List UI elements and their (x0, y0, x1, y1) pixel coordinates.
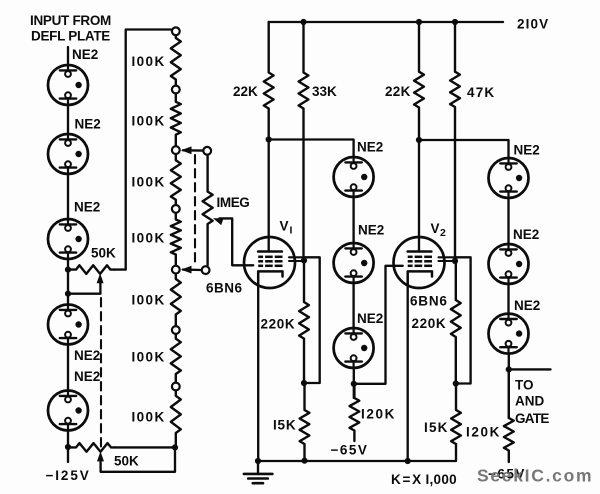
junction 220K/15K (V1) (301, 380, 307, 386)
wire ladder tap to 1MEG bottom (183, 268, 201, 271)
ladder tap node #7 (172, 383, 180, 391)
resistor 120K (middle, to -65V) (350, 384, 360, 441)
wire lamp5 to -125V stub (67, 431, 69, 462)
resistor 220K (V2) (451, 261, 461, 384)
V2 grid3 double lead (439, 256, 456, 258)
resistor 100K #1 (ladder) (171, 36, 181, 85)
junction ladder bottom / 50K right (172, 444, 178, 450)
wire 50K upper right end up to ladder top (115, 30, 172, 270)
wire mid lamp3 to 120K (353, 368, 355, 398)
neon lamp NE2 #2 (left chain) (48, 134, 88, 174)
svg-text:NE2: NE2 (74, 200, 100, 215)
wire 50K upper wiper return (68, 282, 100, 294)
wire output TO AND GATE (509, 368, 551, 370)
resistor 100K #7 (ladder) (171, 391, 181, 447)
wire lamp1-lamp2 (67, 105, 69, 135)
svg-text:SeekIC.com: SeekIC.com (477, 466, 593, 486)
resistor 100K #4 (ladder) (171, 214, 181, 266)
resistor 100K #3 (ladder) (171, 155, 181, 205)
wire right lamp3 to 120K (508, 354, 510, 418)
wire ground rail (258, 444, 456, 461)
V1 grid3 double lead (289, 256, 304, 258)
resistor 47K (450, 22, 460, 261)
svg-text:GATE: GATE (515, 411, 549, 426)
ladder tap node #2 (172, 86, 180, 94)
dashed gang line (1MEG) (194, 155, 196, 266)
wire to middle lamp chain (269, 140, 354, 158)
svg-text:6BN6: 6BN6 (206, 281, 243, 296)
svg-text:220K: 220K (261, 317, 296, 332)
junction 22K1 / V1 plate / lamp wire (266, 136, 272, 142)
neon lamp NE2 #3 (left chain) (48, 219, 88, 259)
junction ground rail (255, 458, 261, 464)
resistor 15K (V2) (451, 384, 461, 445)
wire mid lamp1-lamp2 (352, 197, 354, 244)
wire 50K lower right end to ladder bottom (115, 446, 175, 448)
svg-text:I20K: I20K (466, 425, 501, 440)
wire V1 grid3 bypass loop (304, 257, 320, 383)
resistor 1MEG body (203, 156, 213, 266)
svg-text:NE2: NE2 (75, 117, 101, 132)
wire +210V rail (269, 21, 503, 23)
svg-text:I00K: I00K (132, 293, 166, 308)
resistor 220K (V1) (299, 261, 309, 384)
arrow into ladder tap (upper) (181, 146, 192, 154)
ladder tap node #6 (172, 326, 180, 334)
svg-text:NE2: NE2 (74, 369, 100, 384)
svg-text:I: I (290, 225, 293, 237)
junction V2 cathode / rail (405, 458, 411, 464)
wire input stub to lamp chain (67, 47, 69, 65)
svg-text:I5K: I5K (273, 418, 296, 433)
junction 15K V1 / rail (301, 458, 307, 464)
ladder tap node #5 (172, 266, 180, 274)
potentiometer 50K (lower) body (68, 443, 115, 452)
svg-text:DEFL PLATE: DEFL PLATE (31, 29, 110, 44)
svg-text:−65V: −65V (331, 443, 369, 458)
wire lamp3 to junctions to lamp4 (67, 259, 69, 305)
neon lamp NE2 #5 (left chain) (48, 391, 88, 431)
ladder tap node #1 (172, 27, 180, 35)
resistor 15K (V1) (300, 383, 310, 461)
svg-text:47K: 47K (467, 85, 495, 100)
neon lamp NE2 #2 (middle chain) (334, 243, 374, 283)
wiper arrow 50K (upper) (97, 273, 104, 283)
resistor 22K #2 (414, 22, 424, 140)
potentiometer 50K (upper) body (68, 265, 115, 274)
junction 22K2 / V2 plate / lamp wire (416, 137, 422, 143)
junction left chain / 50K wiper return (65, 291, 71, 297)
svg-text:V: V (431, 221, 440, 236)
ladder tap node #3 (172, 146, 180, 154)
svg-text:6BN6: 6BN6 (410, 294, 448, 309)
junction V2 grid3 / 47K / 220K (452, 258, 458, 264)
dashed gang line (left pots) (100, 298, 102, 447)
svg-text:I5K: I5K (424, 420, 449, 435)
neon lamp NE2 #3 (right chain) (489, 314, 529, 354)
wiper arrow 1MEG (213, 218, 224, 225)
1MEG top terminal node (203, 147, 211, 155)
wire lamp2-lamp3 (67, 174, 69, 220)
svg-text:NE2: NE2 (514, 298, 540, 313)
svg-text:INPUT FROM: INPUT FROM (30, 13, 111, 28)
svg-text:22K: 22K (233, 84, 258, 99)
junction rail / 33K (300, 19, 306, 25)
resistor 120K (right, to -65V) (504, 369, 514, 462)
junction rail / 22K #2 (416, 19, 422, 25)
wire ladder tap to 1MEG top (183, 149, 203, 152)
wire V1 cathode to ground (257, 284, 259, 461)
svg-text:2I0V: 2I0V (517, 17, 549, 32)
wire 50K lower wiper loop (101, 447, 175, 471)
arrow into ladder tap (lower) (181, 266, 192, 274)
svg-text:I20K: I20K (361, 407, 396, 422)
junction right chain bottom (506, 366, 512, 372)
wire mid lamp2-lamp3 (352, 283, 354, 329)
wire to right lamp chain (419, 140, 509, 159)
resistor 33K (299, 22, 309, 261)
svg-text:I00K: I00K (132, 410, 166, 425)
neon lamp NE2 #2 (right chain) (489, 244, 529, 284)
svg-text:I00K: I00K (132, 350, 166, 365)
junction mid chain bottom (351, 381, 357, 387)
wire V2 cathode to rail (407, 284, 409, 461)
svg-text:K = X I,000: K = X I,000 (391, 472, 457, 487)
wire right lamp2-lamp3 (507, 284, 509, 314)
svg-text:AND: AND (515, 394, 544, 409)
svg-text:NE2: NE2 (72, 47, 98, 62)
svg-text:220K: 220K (412, 316, 447, 331)
junction rail / 47K (452, 19, 458, 25)
svg-text:I00K: I00K (132, 54, 166, 69)
ground symbol (257, 461, 259, 474)
neon lamp NE2 #1 (middle chain) (334, 157, 374, 197)
resistor 100K #2 (ladder) (171, 94, 181, 145)
svg-text:NE2: NE2 (358, 223, 384, 238)
svg-text:50K: 50K (114, 454, 139, 469)
svg-text:NE2: NE2 (74, 348, 100, 363)
wiper arrow 50K (lower) (97, 451, 104, 461)
svg-text:NE2: NE2 (357, 311, 383, 326)
wire mid junction to V2 grid1 (354, 266, 403, 384)
wire lamp4-lamp5 (67, 345, 69, 391)
wire V2 plate lead (418, 140, 420, 252)
svg-text:33K: 33K (312, 84, 337, 99)
vacuum tube V1 6BN6 (244, 237, 295, 288)
svg-text:2: 2 (440, 227, 446, 239)
svg-text:NE2: NE2 (514, 143, 540, 158)
junction left chain bottom / 50K (65, 444, 71, 450)
resistor 100K #5 (ladder) (171, 274, 181, 325)
svg-text:I00K: I00K (132, 175, 166, 190)
svg-text:TO: TO (515, 378, 534, 393)
1MEG bottom terminal node (202, 266, 210, 274)
junction 220K/15K (V2) (453, 380, 459, 386)
resistor 22K #1 (264, 22, 274, 140)
svg-text:I00K: I00K (132, 231, 166, 246)
junction left chain / 50K left end (65, 267, 71, 273)
neon lamp NE2 #4 (left chain) (48, 305, 88, 345)
svg-text:NE2: NE2 (513, 227, 539, 242)
neon lamp NE2 #1 (left chain) (48, 65, 88, 105)
wire V1 plate lead (268, 140, 270, 252)
svg-text:IMEG: IMEG (217, 195, 250, 210)
junction V1 grid3 / 33K / 220K (301, 257, 307, 263)
ladder tap node #4 (172, 205, 180, 213)
vacuum tube V2 6BN6 (394, 237, 445, 288)
wire right lamp1-lamp2 (507, 198, 509, 245)
resistor 100K #6 (ladder) (171, 335, 181, 382)
wire 1MEG wiper to V1 grid1 (220, 218, 254, 265)
svg-text:I00K: I00K (132, 114, 166, 129)
svg-text:V: V (280, 219, 289, 234)
svg-text:−I25V: −I25V (46, 468, 91, 483)
neon lamp NE2 #1 (right chain) (489, 158, 529, 198)
svg-text:NE2: NE2 (357, 140, 383, 155)
svg-text:50K: 50K (91, 246, 116, 261)
neon lamp NE2 #3 (middle chain) (334, 328, 374, 368)
svg-text:22K: 22K (385, 84, 411, 99)
wire V2 grid3 bypass loop (455, 257, 471, 383)
